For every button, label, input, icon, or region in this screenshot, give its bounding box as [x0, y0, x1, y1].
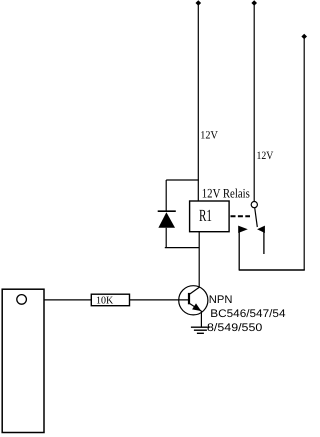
diode D1 (flyback) — [158, 180, 176, 248]
wire base to resistor — [44, 299, 189, 301]
node supply terminal 1 (diamond) — [196, 0, 202, 6]
dashed actuation link — [231, 215, 251, 217]
svg-text:R1: R1 — [199, 206, 212, 225]
transistor Q1 emitter stroke — [190, 304, 201, 311]
svg-text:12V: 12V — [200, 129, 218, 141]
wire emitter to ground — [200, 311, 202, 328]
wire 12V rail 2 (vertical) — [253, 3, 255, 202]
transistor Q1 base bar — [188, 293, 190, 304]
transistor Q1 emitter arrow — [192, 303, 201, 311]
svg-text:10K: 10K — [96, 295, 114, 306]
wire 12V rail 1 (vertical) — [197, 3, 199, 201]
relay switch common terminal (circle) — [251, 202, 257, 208]
svg-text:NPN: NPN — [209, 294, 233, 306]
wire rail 3 (vertical) — [303, 37, 305, 271]
ground symbol — [191, 327, 210, 333]
relay switch left contact lead — [238, 229, 240, 271]
node terminal 3 (diamond) — [301, 34, 307, 40]
relay switch armature — [255, 208, 258, 227]
relay coil R1 (box) — [190, 201, 230, 232]
wire diode bottom branch — [165, 247, 199, 249]
transistor Q1 collector stroke — [190, 287, 200, 294]
transistor Q1 circle — [179, 286, 208, 315]
connector box J1 — [2, 289, 44, 432]
connector pin circle — [17, 295, 27, 305]
relay switch right contact lead — [263, 229, 265, 254]
node supply terminal 2 (diamond) — [251, 0, 257, 6]
resistor 10K (box) — [91, 294, 129, 306]
relay switch left contact arrow — [238, 226, 248, 233]
svg-text:8/549/550: 8/549/550 — [207, 322, 262, 334]
svg-text:12V: 12V — [257, 150, 274, 162]
svg-text:12V Relais: 12V Relais — [202, 185, 250, 200]
svg-text:BC546/547/54: BC546/547/54 — [210, 308, 285, 320]
relay switch right contact arrow — [257, 226, 265, 233]
wire relay coil to transistor collector — [198, 232, 200, 288]
wire switch to rail 3 (bottom horizontal) — [239, 269, 305, 271]
wire diode top branch — [166, 179, 199, 181]
